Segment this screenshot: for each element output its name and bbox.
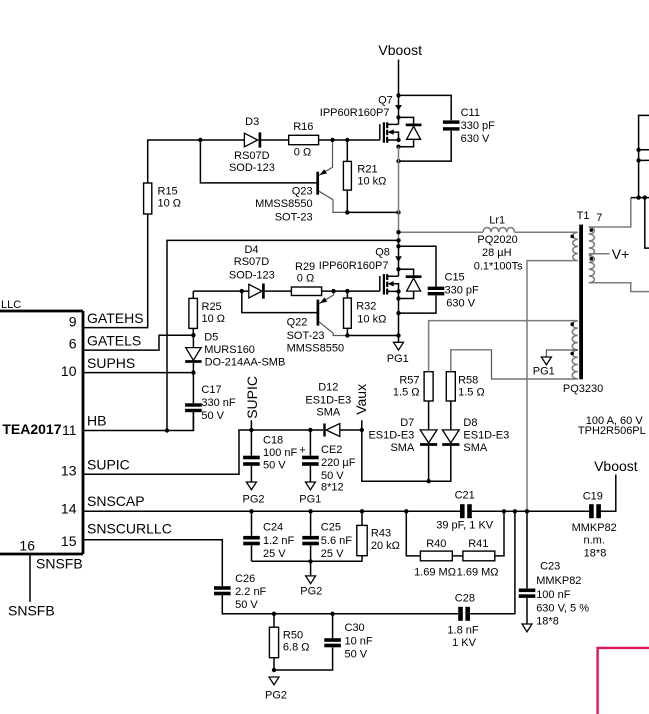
node C25 top junction [308, 509, 312, 513]
svg-text:16: 16 [19, 537, 35, 553]
svg-text:1.5 Ω: 1.5 Ω [393, 387, 420, 399]
svg-text:V+: V+ [612, 246, 630, 262]
node Q22 emitter to gate line junction [331, 289, 335, 293]
node collector bus to main line [396, 333, 400, 337]
svg-text:MMSS8550: MMSS8550 [287, 343, 344, 355]
node HB loop junction [165, 428, 169, 432]
wire Q23 collector bus to switch node [347, 211, 398, 213]
svg-text:DO-214AA-SMB: DO-214AA-SMB [205, 356, 286, 368]
svg-text:RS07D: RS07D [234, 150, 270, 162]
svg-text:IPP60R160P7: IPP60R160P7 [320, 107, 390, 119]
wire switch node to Lr1 (gray) [399, 231, 484, 233]
svg-text:Q7: Q7 [378, 94, 393, 106]
resistor R32 10 kOhm [344, 291, 387, 335]
wire HB to half-bridge switch node loop [167, 240, 399, 430]
wire switch node HB (gray) [398, 147, 400, 241]
pin 9 GATEHS label [69, 310, 144, 329]
capacitor C19 MMKP82 n.m. 18*8 [572, 491, 617, 560]
IC name label TEA2017 [2, 421, 61, 437]
svg-text:SOD-123: SOD-123 [229, 270, 275, 282]
svg-text:C30: C30 [345, 622, 365, 634]
svg-text:1.69 MΩ: 1.69 MΩ [457, 566, 499, 578]
ground PG2 below C25 [300, 576, 322, 598]
capacitor C23 MMKP82 100 nF 630 V, 5 % 18*8 [519, 511, 590, 627]
ground arrow below C23 [522, 624, 532, 632]
svg-text:330 pF: 330 pF [445, 284, 480, 296]
wire T1 primary bottom to resonant node (gray) [527, 261, 578, 512]
svg-text:PG2: PG2 [242, 493, 264, 505]
resistor R16 0 Ohm [289, 121, 319, 159]
wire Vaux down to D7/D8 bus [362, 430, 451, 481]
svg-text:220 µF: 220 µF [321, 457, 356, 469]
net label SNSFB (wire end) [8, 603, 55, 619]
svg-text:MMSS8550: MMSS8550 [255, 198, 312, 210]
svg-text:SNSFB: SNSFB [8, 603, 55, 619]
ground PG1 below Q8 source [387, 342, 409, 365]
svg-text:D4: D4 [244, 244, 258, 256]
svg-text:10 nF: 10 nF [345, 635, 373, 647]
svg-text:D12: D12 [318, 381, 338, 393]
inductor Lr1 PQ2020 28 uH 0.1*100Ts [474, 215, 578, 273]
svg-text:18*8: 18*8 [584, 548, 607, 560]
svg-text:630 V: 630 V [446, 297, 475, 309]
svg-text:SUPIC: SUPIC [244, 376, 260, 419]
svg-text:SNSCURLLC: SNSCURLLC [87, 521, 172, 537]
node GATELS / R25 / D5 junction [191, 333, 195, 337]
wire gate drive net LS: R25 top to D4 to R29 to Q8 gate [193, 290, 379, 292]
svg-text:9: 9 [69, 313, 77, 329]
capacitor C17 330 nF 50 V (bootstrap) [185, 373, 236, 431]
svg-text:C21: C21 [455, 490, 475, 502]
resistor R15 10 Ohm [144, 183, 181, 214]
wire T1 aux center tap to PG1 (gray) [546, 350, 577, 357]
svg-text:50 V: 50 V [235, 599, 258, 611]
svg-text:28 µH: 28 µH [482, 247, 512, 259]
node Vboost / C11 junction [396, 93, 400, 97]
svg-text:1.2 nF: 1.2 nF [263, 535, 294, 547]
svg-text:D8: D8 [463, 417, 477, 429]
pin 14 SNSCAP label [61, 493, 145, 516]
svg-text:Vaux: Vaux [353, 384, 369, 415]
svg-text:HB: HB [87, 413, 106, 429]
svg-text:50 V: 50 V [321, 470, 344, 482]
svg-text:630 V: 630 V [461, 133, 490, 145]
svg-text:CE2: CE2 [321, 444, 342, 456]
svg-text:C24: C24 [263, 522, 283, 534]
svg-text:R58: R58 [458, 375, 478, 387]
svg-text:630 V, 5 %: 630 V, 5 % [536, 603, 589, 615]
svg-text:Lr1: Lr1 [489, 215, 505, 227]
node switch node to Lr1 junction [396, 230, 400, 234]
T1 secondary winding lower half [589, 256, 649, 292]
capacitor C15 330 pF 630 V [399, 246, 480, 313]
svg-text:D5: D5 [204, 332, 218, 344]
transistor Q7 IPP60R160P7 (N-MOSFET with body diode) [320, 94, 422, 149]
wire R58 top to T1 aux winding bottom (gray) [451, 350, 578, 379]
svg-text:5.6 nF: 5.6 nF [321, 535, 352, 547]
svg-text:10 Ω: 10 Ω [158, 198, 182, 210]
svg-text:R15: R15 [158, 185, 178, 197]
diode D12 ES1D-E3 SMA [305, 381, 361, 436]
svg-text:25 V: 25 V [321, 548, 344, 560]
resistor R58 1.5 Ohm [446, 372, 484, 401]
svg-text:R57: R57 [399, 375, 419, 387]
svg-text:10 kΩ: 10 kΩ [357, 313, 386, 325]
svg-text:ES1D-E3: ES1D-E3 [368, 430, 414, 442]
svg-text:PQ2020: PQ2020 [477, 234, 517, 246]
svg-text:PG2: PG2 [300, 585, 322, 597]
node R21 bottom junction [345, 210, 349, 214]
svg-text:C28: C28 [455, 593, 475, 605]
svg-text:Q8: Q8 [375, 246, 390, 258]
svg-text:0 Ω: 0 Ω [294, 147, 311, 159]
node T1/C23 resonant junction [525, 509, 529, 513]
node C11 bottom junction [396, 159, 400, 163]
svg-text:39 pF, 1 KV: 39 pF, 1 KV [436, 520, 494, 532]
svg-text:SMA: SMA [390, 442, 415, 454]
node Vaux / D12 junction [360, 428, 364, 432]
diode D4 RS07D SOD-123 [229, 244, 275, 299]
svg-text:GATEHS: GATEHS [87, 310, 144, 326]
svg-text:SOT-23: SOT-23 [287, 330, 325, 342]
svg-text:14: 14 [61, 501, 77, 517]
capacitor CE2 220 uF 50 V electrolytic [299, 430, 355, 493]
svg-text:SNSCAP: SNSCAP [87, 493, 145, 509]
svg-text:PG1: PG1 [299, 493, 321, 505]
svg-text:15: 15 [61, 533, 77, 549]
highlight box (pink) bottom right [598, 648, 649, 714]
svg-text:R21: R21 [357, 163, 377, 175]
svg-text:11: 11 [62, 422, 77, 438]
svg-text:50 V: 50 V [201, 410, 224, 422]
node D3 anode branch junction [198, 138, 202, 142]
wire D3 cathode-side branch down to Q23 base [200, 140, 316, 183]
net label V+ center tap [589, 246, 630, 262]
node SUPHS / D5 / C17 junction [191, 370, 195, 374]
transistor Q23 MMSS8550 SOT-23 (PNP) [255, 140, 347, 223]
svg-text:7: 7 [596, 212, 602, 224]
svg-text:LLC: LLC [1, 299, 21, 311]
svg-text:C19: C19 [583, 491, 603, 503]
T1 primary winding [570, 232, 577, 260]
pin 10 SUPHS label [61, 355, 135, 379]
svg-text:13: 13 [61, 463, 77, 479]
diode D8 ES1D-E3 SMA [442, 401, 509, 454]
node C30 top junction [330, 612, 334, 616]
svg-text:R29: R29 [295, 261, 315, 273]
capacitor C25 5.6 nF 25 V [302, 511, 352, 576]
svg-text:18*8: 18*8 [536, 615, 559, 627]
svg-text:1.5 Ω: 1.5 Ω [458, 387, 485, 399]
svg-text:10: 10 [61, 363, 77, 379]
capacitor C28 1.8 nF 1 KV [447, 511, 514, 649]
diode D5 MURS160 DO-214AA-SMB [185, 332, 285, 373]
svg-text:R43: R43 [371, 528, 391, 540]
net label LLC (clipped at left edge) [1, 299, 21, 311]
svg-text:2.2 nF: 2.2 nF [235, 586, 266, 598]
node collector bus to main line [396, 210, 400, 214]
resistor R43 20 kOhm [357, 511, 400, 555]
svg-text:SUPHS: SUPHS [87, 355, 135, 371]
svg-text:R16: R16 [293, 121, 313, 133]
wire HB pin 11 [83, 411, 193, 431]
ground PG2 below C18 [242, 482, 264, 505]
svg-text:SMA: SMA [316, 407, 341, 419]
svg-text:8*12: 8*12 [321, 481, 344, 493]
capacitor C21 39 pF, 1 KV [436, 490, 494, 532]
svg-text:MURS160: MURS160 [204, 344, 255, 356]
svg-text:TPH2R506PL: TPH2R506PL [578, 425, 646, 437]
capacitor C24 1.2 nF 25 V [243, 511, 294, 561]
capacitor C30 10 nF 50 V [324, 614, 373, 661]
svg-text:ES1D-E3: ES1D-E3 [463, 430, 509, 442]
net label Vboost (right) [594, 458, 638, 474]
svg-text:10 Ω: 10 Ω [202, 313, 226, 325]
svg-text:330 nF: 330 nF [201, 397, 236, 409]
svg-text:ES1D-E3: ES1D-E3 [305, 394, 351, 406]
svg-text:PG1: PG1 [533, 366, 555, 378]
capacitor C18 100 nF 50 V [243, 430, 297, 482]
label output rectifier 100 A, 60 V TPH2R506PL [578, 415, 646, 437]
node R50 bottom junction [272, 668, 276, 672]
node C24 top junction [249, 509, 253, 513]
svg-text:SUPIC: SUPIC [87, 456, 130, 472]
svg-text:Vboost: Vboost [594, 458, 638, 474]
node R40 riser junction [404, 509, 408, 513]
ground PG2 below R50 [265, 677, 287, 701]
wire GATELS pin 6 [83, 335, 193, 350]
svg-text:R32: R32 [356, 300, 376, 312]
svg-text:+: + [299, 445, 305, 457]
node R43 top junction [360, 509, 364, 513]
node D7 bottom junction [426, 479, 430, 483]
resistor R41 1.69 MOhm [452, 511, 504, 578]
svg-text:PG1: PG1 [387, 353, 409, 365]
wire SUPIC pin 13 [83, 430, 323, 474]
svg-text:SNSFB: SNSFB [36, 555, 83, 571]
pin 13 SUPIC label [61, 456, 130, 478]
svg-text:Q23: Q23 [292, 186, 313, 198]
svg-text:C15: C15 [445, 271, 465, 283]
node output rail junctions [636, 148, 647, 200]
svg-text:IPP60R160P7: IPP60R160P7 [319, 260, 389, 272]
svg-text:D3: D3 [245, 116, 259, 128]
node D4 anode branch junction [240, 289, 244, 293]
svg-text:R41: R41 [468, 538, 488, 550]
wire SNSCAP pin 14 main resonant sense line [83, 475, 616, 512]
node C28 riser junction [513, 509, 517, 513]
svg-text:MMKP82: MMKP82 [572, 522, 617, 534]
svg-text:R50: R50 [283, 629, 303, 641]
T1 auxiliary winding lower half [570, 350, 577, 379]
svg-text:Q22: Q22 [287, 316, 308, 328]
svg-text:PQ3230: PQ3230 [563, 383, 603, 395]
wire output rail top right [631, 115, 649, 248]
svg-text:6: 6 [69, 336, 77, 352]
svg-text:25 V: 25 V [263, 548, 286, 560]
svg-text:1.8 nF: 1.8 nF [447, 625, 478, 637]
T1 auxiliary winding upper half [570, 321, 577, 350]
svg-text:RS07D: RS07D [234, 256, 270, 268]
wire R50 bottom to C30 bottom [274, 648, 333, 671]
pin 15 SNSCURLLC label [61, 521, 172, 550]
wire SUPHS pin 10 [83, 372, 193, 374]
svg-text:1 KV: 1 KV [452, 637, 477, 649]
node R21 top junction [345, 138, 349, 142]
svg-text:C18: C18 [263, 435, 283, 447]
svg-text:100 nF: 100 nF [263, 447, 298, 459]
wire SNSCURLLC pin 15 [83, 540, 222, 586]
svg-text:100 nF: 100 nF [536, 589, 571, 601]
ground PG1 below CE2 [299, 482, 321, 505]
resistor R21 10 kOhm [343, 140, 386, 212]
node R41 riser junction [502, 509, 506, 513]
svg-text:T1: T1 [577, 210, 590, 222]
node C15 bottom junction [396, 311, 400, 315]
svg-text:50 V: 50 V [345, 649, 368, 661]
svg-text:SMA: SMA [463, 442, 488, 454]
capacitor C11 330 pF 630 V [399, 95, 496, 161]
svg-text:PG2: PG2 [265, 689, 287, 701]
node HB loop junction on main line [396, 238, 400, 242]
T1 secondary winding upper half with pin 7 lead [589, 198, 631, 255]
svg-text:50 V: 50 V [263, 460, 286, 472]
net label Vaux (rotated) with stub [353, 384, 369, 430]
svg-text:GATELS: GATELS [87, 332, 141, 348]
transistor Q22 MMSS8550 SOT-23 (PNP) [287, 291, 348, 355]
pin 6 GATELS label [69, 332, 142, 351]
svg-text:20 kΩ: 20 kΩ [371, 540, 400, 552]
svg-text:C26: C26 [235, 573, 255, 585]
net label SNSFB (at pin 16) [36, 555, 83, 571]
pin 16 SNSFB stub [19, 537, 35, 602]
net label Vboost (top) [378, 42, 422, 58]
node SUPIC / C18 junction [249, 428, 253, 432]
svg-text:0 Ω: 0 Ω [297, 272, 314, 284]
node R32 bottom junction [345, 333, 349, 337]
svg-text:0.1*100Ts: 0.1*100Ts [474, 260, 523, 272]
net label SUPIC (rotated) with stub [244, 376, 260, 430]
svg-text:R25: R25 [202, 301, 222, 313]
svg-text:330 pF: 330 pF [461, 120, 496, 132]
svg-text:SOT-23: SOT-23 [275, 211, 313, 223]
node C15 top junction [396, 244, 400, 248]
capacitor C26 2.2 nF 50 V [214, 573, 458, 614]
wire gate drive net HS: R15 top to D3 to R16 to Q7 gate [148, 140, 380, 183]
node CE2 top junction [308, 428, 312, 432]
wire R57 top to T1 aux winding top (gray) [429, 321, 578, 372]
svg-text:n.m.: n.m. [583, 535, 604, 547]
diode D3 RS07D SOD-123 [229, 116, 275, 174]
wire D4 anode branch down to Q22 base [242, 291, 317, 313]
ground PG1 at T1 aux tap [533, 357, 555, 378]
resistor R50 6.8 Ohm [269, 614, 309, 670]
svg-text:SOD-123: SOD-123 [229, 162, 275, 174]
svg-text:R40: R40 [426, 538, 446, 550]
svg-text:C11: C11 [461, 107, 480, 119]
svg-text:10 kΩ: 10 kΩ [357, 176, 386, 188]
resistor R40 1.69 MOhm [406, 511, 456, 578]
node R32 top junction [345, 289, 349, 293]
svg-text:C25: C25 [321, 522, 341, 534]
wire Vboost down to Q7 drain [398, 60, 400, 125]
diode D7 ES1D-E3 SMA [368, 401, 437, 481]
wire GATEHS pin 9 [83, 183, 148, 328]
svg-text:C17: C17 [201, 384, 221, 396]
svg-text:D7: D7 [400, 417, 414, 429]
svg-text:1.69 MΩ: 1.69 MΩ [414, 566, 456, 578]
transistor Q8 IPP60R160P7 (N-MOSFET with body diode) [319, 240, 422, 342]
resistor R29 0 Ohm [291, 261, 321, 296]
resistor R57 1.5 Ohm [393, 372, 433, 401]
pin 11 HB label [62, 413, 107, 438]
svg-text:TEA2017: TEA2017 [2, 421, 61, 437]
controller IC U1 TEA2017 body outline [0, 311, 83, 554]
svg-text:C23: C23 [540, 560, 560, 572]
svg-text:Vboost: Vboost [378, 42, 422, 58]
transformer T1 PQ3230 core [563, 210, 603, 395]
svg-text:6.8 Ω: 6.8 Ω [283, 642, 310, 654]
wire C24/C25/R43 bottom bus [252, 556, 363, 561]
wire Q22 collector bus to PG1 [347, 335, 398, 337]
node C25 bottom junction [308, 559, 312, 563]
node Q23 emitter to gate line junction [330, 138, 334, 142]
resistor R25 10 Ohm [189, 291, 225, 335]
node R50 top junction [272, 612, 276, 616]
svg-text:MMKP82: MMKP82 [536, 575, 581, 587]
